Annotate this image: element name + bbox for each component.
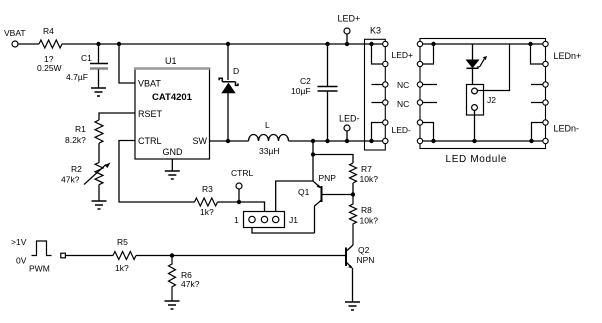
svg-text:R7: R7 (361, 164, 372, 174)
node CTRL junction (237, 200, 241, 204)
node R7 R8 base junction (351, 192, 355, 196)
LED Module box (420, 39, 546, 166)
svg-text:LED+: LED+ (392, 50, 414, 60)
svg-text:C1: C1 (81, 53, 92, 63)
wire diode branch (227, 44, 229, 141)
inductor L (249, 135, 289, 142)
ground under R2 (92, 201, 107, 209)
svg-text:LEDn-: LEDn- (554, 124, 580, 134)
terminal LED- (339, 114, 360, 142)
wire Q2 emitter down (352, 268, 354, 302)
wire SW rail down branch (312, 141, 314, 155)
svg-text:SW: SW (193, 136, 208, 146)
connector K3 box (365, 26, 386, 151)
node LED+ tap (345, 42, 349, 46)
wire J2 top pin to top rail (477, 44, 509, 91)
svg-text:VBAT: VBAT (138, 79, 161, 89)
svg-text:>1V: >1V (11, 237, 27, 247)
svg-text:10µF: 10µF (291, 86, 311, 96)
node module top-left (431, 42, 435, 46)
svg-text:1k?: 1k? (115, 263, 129, 273)
resistor R4 labels (37, 26, 62, 73)
svg-text:1k?: 1k? (200, 207, 214, 217)
svg-text:LEDn+: LEDn+ (554, 51, 582, 61)
node U1 VBAT tap (117, 42, 121, 46)
wire CTRL pin to R3 (119, 141, 195, 203)
resistor R1 labels (65, 124, 86, 145)
wire module top-left hook (420, 44, 434, 64)
svg-text:33µH: 33µH (259, 146, 280, 156)
transistor Q1 (298, 173, 353, 233)
op-amp U1 CAT4201 box (134, 56, 211, 159)
svg-text:R4: R4 (43, 26, 54, 36)
wire SW rail left (210, 140, 249, 142)
svg-text:LED-: LED- (339, 114, 360, 124)
wire module left NC stubs (420, 85, 437, 103)
resistor R3 labels (200, 184, 214, 217)
svg-text:Q2: Q2 (358, 245, 370, 255)
LED D2 (467, 56, 488, 68)
U1 GND pin wire (171, 159, 173, 171)
diode D (schottky) (219, 66, 239, 93)
node K3 top internal (369, 42, 373, 46)
wire RSET to R1 (99, 113, 135, 120)
svg-text:8.2k?: 8.2k? (65, 135, 86, 145)
svg-text:47k?: 47k? (61, 175, 80, 185)
svg-text:CTRL: CTRL (231, 168, 253, 178)
svg-text:K3: K3 (370, 26, 381, 36)
terminal VBAT (4, 28, 26, 47)
svg-text:VBAT: VBAT (4, 28, 26, 38)
wire SW rail right (289, 140, 372, 142)
wire K3 bottom hook (372, 123, 386, 142)
transistor Q2 (346, 245, 374, 268)
capacitor C2 (291, 44, 338, 141)
node module top-right (528, 42, 532, 46)
node SW branch top (311, 139, 315, 143)
wire R2 to ground (98, 185, 100, 201)
resistor R6 (169, 256, 176, 302)
svg-text:4.7µF: 4.7µF (66, 72, 88, 82)
wire module top-right hook (531, 44, 546, 64)
resistor R5 labels (115, 237, 129, 273)
wire emitter net down (312, 155, 314, 182)
svg-text:10k?: 10k? (360, 174, 379, 184)
connector J1 (234, 212, 298, 228)
wire R5 to Q2 base (136, 255, 346, 257)
resistor R6 labels (181, 270, 200, 289)
resistor R1 (95, 120, 103, 143)
LED D2 anode wire (472, 44, 474, 60)
node module bottom-left (431, 139, 435, 143)
wire K3 top hook (372, 44, 386, 64)
resistor R8 labels (360, 205, 379, 226)
svg-text:0V: 0V (16, 256, 27, 266)
wire module bottom-left hook (420, 123, 434, 142)
svg-text:0.25W: 0.25W (37, 63, 62, 73)
rheostat R2 (84, 163, 106, 185)
svg-text:R1: R1 (75, 124, 86, 134)
svg-text:NC: NC (397, 99, 409, 109)
svg-text:U1: U1 (165, 56, 177, 66)
svg-text:CAT4201: CAT4201 (152, 92, 193, 103)
svg-text:PNP: PNP (319, 173, 337, 183)
resistor R8 (350, 195, 357, 246)
PWM source symbol (11, 237, 52, 274)
svg-text:LED-: LED- (392, 125, 412, 135)
svg-text:J1: J1 (289, 215, 298, 225)
jumper J2 (467, 85, 497, 116)
wire module bottom-right hook (532, 123, 546, 142)
resistor R7 (350, 163, 357, 183)
terminal LED+ (338, 14, 361, 45)
svg-text:10k?: 10k? (360, 216, 379, 226)
svg-text:C2: C2 (300, 76, 311, 86)
svg-text:PWM: PWM (29, 264, 50, 274)
svg-text:J2: J2 (487, 95, 496, 105)
wire K3 NC stubs (372, 85, 386, 103)
node LED- tap (345, 139, 349, 143)
svg-text:LED+: LED+ (338, 14, 361, 24)
ground under C1 (91, 88, 106, 96)
wire module bottom internal rail (420, 140, 546, 142)
resistor R7 labels (360, 164, 379, 184)
wire Q1 collector to J1 pin1 (252, 220, 315, 234)
node C1 tap (96, 42, 100, 46)
svg-text:R2: R2 (71, 164, 82, 174)
node diode bottom (226, 139, 230, 143)
K3 pin circles (383, 41, 388, 143)
terminal CTRL (231, 168, 253, 202)
svg-text:L: L (265, 120, 270, 130)
svg-text:R3: R3 (202, 184, 213, 194)
module pin circles left (417, 41, 422, 143)
wire emitter net to R7 (313, 155, 353, 164)
node C2 bottom (325, 139, 329, 143)
svg-text:Q1: Q1 (298, 187, 310, 197)
svg-text:RSET: RSET (138, 109, 163, 119)
capacitor C1 (66, 44, 108, 88)
svg-text:47k?: 47k? (181, 279, 200, 289)
module pin circles right (543, 41, 548, 143)
node J2 bottom rail junction (472, 139, 476, 143)
svg-text:NC: NC (397, 80, 409, 90)
ground under R6 (165, 301, 180, 309)
wire R1 to R2 (98, 143, 100, 162)
svg-text:R5: R5 (117, 237, 128, 247)
wire module top internal rail (420, 43, 531, 45)
resistor R3 (195, 198, 218, 206)
node C2 top (325, 42, 329, 46)
wire J1 pin3 to Q1 emitter (276, 181, 313, 220)
node diode top (226, 42, 230, 46)
wire R7 bottom (352, 183, 354, 195)
wire J2 bottom pin to bottom rail (474, 110, 476, 141)
inductor L labels (259, 120, 280, 156)
LED D2 cathode wire (472, 68, 474, 88)
svg-text:R8: R8 (361, 205, 372, 215)
svg-text:CTRL: CTRL (138, 136, 162, 146)
wire PWM to R5 (65, 255, 113, 257)
node module bottom-right (529, 139, 533, 143)
ground under U1 (165, 171, 180, 179)
terminal PWM input (61, 253, 66, 258)
node K3 bottom internal (369, 139, 373, 143)
resistor R2 labels (61, 164, 82, 185)
rheostat R2 arrow head (105, 163, 111, 169)
resistor R5 (113, 252, 136, 260)
svg-text:GND: GND (163, 147, 184, 157)
wire VBAT to U1 (119, 44, 135, 83)
ground under Q2 (345, 302, 360, 310)
svg-text:D: D (233, 66, 239, 76)
node Q1 emitter net (311, 152, 315, 156)
wire top rail VBAT net (17, 43, 372, 45)
resistor R4 (39, 40, 62, 48)
wire R3 to J1 pin2 (218, 202, 265, 220)
svg-text:1: 1 (234, 215, 239, 225)
svg-text:NPN: NPN (357, 255, 375, 265)
wire module right NC stubs (531, 85, 546, 103)
node R6 tap (170, 253, 174, 257)
svg-text:LED Module: LED Module (446, 154, 508, 165)
